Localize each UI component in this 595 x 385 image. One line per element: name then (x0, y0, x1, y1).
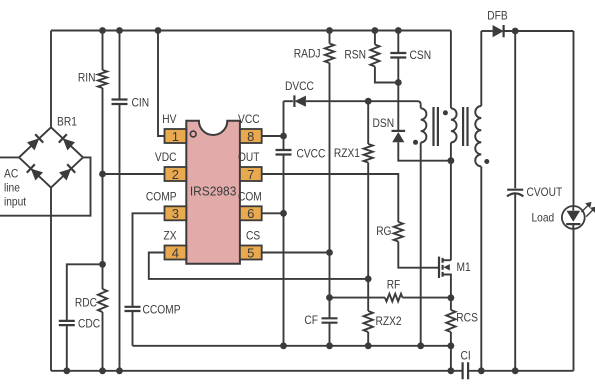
wire output node down right edge (573, 31, 575, 206)
wire RCS to bus (450, 332, 452, 346)
wire DVCC anode side (284, 100, 293, 102)
wire aux winding top stub (420, 104, 422, 108)
wire AC input upper (0, 156, 19, 158)
BR1 diode bottom-right (59, 164, 75, 180)
capacitor CIN (112, 100, 128, 105)
pin 3 box (165, 206, 187, 220)
svg-text:VDC: VDC (155, 151, 177, 164)
secondary winding phase dot (484, 159, 489, 164)
wire DFB node to secondary top (480, 31, 482, 106)
svg-text:DVCC: DVCC (285, 80, 314, 93)
resistor RF (385, 294, 403, 302)
pin 2 box (165, 167, 187, 181)
junction VCC-CVCC (280, 133, 287, 140)
svg-text:CCOMP: CCOMP (143, 303, 181, 316)
wire RADJ to CS node (329, 63, 331, 298)
svg-text:M1: M1 (457, 261, 471, 274)
junction rail-RADJ (326, 27, 333, 34)
svg-text:RG: RG (376, 225, 391, 238)
junction rail-bus-drop (448, 367, 455, 374)
junction bus-CF (326, 342, 333, 349)
wire COM pin 6 (262, 212, 284, 214)
pin 6 box (240, 206, 262, 220)
svg-text:RZX2: RZX2 (376, 315, 402, 328)
wire CVOUT to ground rail (514, 193, 516, 370)
svg-text:CIN: CIN (132, 96, 150, 109)
wire snubber node to DSN (397, 83, 399, 131)
svg-text:4: 4 (172, 245, 179, 260)
pin 4 box (165, 246, 187, 260)
wire output node to CVOUT (514, 31, 516, 188)
junction CS-RADJ (326, 249, 333, 256)
svg-text:OUT: OUT (238, 151, 260, 164)
wire rail to RADJ (329, 31, 331, 44)
wire RZX2 to bus (367, 332, 369, 346)
svg-text:CDC: CDC (78, 317, 100, 330)
wire CCOMP to bus (132, 311, 134, 346)
svg-text:RADJ: RADJ (294, 48, 321, 61)
wire ZX node to RZX2 (367, 279, 369, 311)
svg-text:HV: HV (162, 113, 176, 126)
resistor RSN (370, 45, 379, 67)
wire CIN to ground rail (119, 104, 121, 371)
wire AC input lower to BR1 right corner (0, 157, 91, 215)
wire ZX pin 4 to divider (149, 253, 368, 279)
svg-text:input: input (4, 196, 27, 209)
junction CS-RF-CF (326, 294, 333, 301)
wire DVCC node to RZX1 (367, 101, 369, 144)
wire M1 source to RCS (450, 298, 452, 310)
BR1 diode bottom-left (27, 164, 43, 180)
svg-text:CVCC: CVCC (297, 148, 326, 161)
svg-text:RIN: RIN (78, 72, 96, 85)
svg-text:1: 1 (172, 129, 179, 144)
wire ground bus (133, 345, 451, 347)
wire BR1 top to rail (50, 31, 52, 128)
junction rail-secondary (478, 367, 485, 374)
junction rail-CVOUT (512, 367, 519, 374)
wire RF to M1 source node (403, 297, 451, 299)
transformer T1 primary winding (451, 108, 457, 142)
wire RZX1 to ZX node (367, 163, 369, 279)
wire CSN to snubber node (397, 58, 399, 83)
wire bus drop to rail (450, 346, 452, 371)
svg-text:2: 2 (172, 167, 179, 182)
junction bus-aux (417, 342, 424, 349)
pin 7 box (240, 167, 262, 181)
aux winding phase dot (413, 140, 418, 145)
pin 1 indicator dot (190, 131, 196, 137)
transformer T1 auxiliary winding (421, 108, 427, 142)
capacitor CSN (390, 53, 406, 58)
svg-text:Load: Load (532, 212, 555, 225)
svg-text:COM: COM (238, 190, 262, 203)
wire VDC pin 2 (103, 173, 165, 175)
wire rail to HV pin 1 (158, 31, 165, 137)
svg-text:RZX1: RZX1 (334, 147, 360, 160)
BR1 diode top-right (59, 134, 75, 150)
svg-text:RCS: RCS (456, 312, 478, 325)
svg-text:BR1: BR1 (57, 116, 77, 129)
diode DSN (392, 131, 406, 142)
wire primary bottom to drain (450, 143, 452, 261)
junction VDC tap (99, 171, 106, 178)
wire RSN to snubber node (375, 67, 398, 83)
svg-text:CS: CS (246, 230, 260, 243)
svg-text:AC: AC (4, 168, 18, 181)
junction rail-HV (155, 27, 162, 34)
pin 8 box (240, 129, 262, 143)
diode DFB (493, 25, 504, 37)
BR1 diode top-left (27, 134, 43, 150)
resistor RZX2 (364, 311, 373, 332)
svg-text:DSN: DSN (373, 117, 395, 130)
wire top rail (51, 30, 451, 32)
wire CDC to ground rail (66, 325, 68, 371)
wire RDC to ground rail (102, 312, 104, 371)
svg-text:DFB: DFB (487, 9, 508, 22)
wire DFB to output node (504, 30, 574, 32)
junction rail-RSN (372, 27, 379, 34)
wire CS node to CF (329, 298, 331, 319)
wire OUT pin 7 to RG (262, 174, 399, 222)
wire aux winding to bus (420, 143, 422, 346)
junction CDC tap (99, 261, 106, 268)
svg-text:CVOUT: CVOUT (527, 186, 563, 199)
wire BR1 bottom to ground rail (50, 188, 52, 371)
svg-text:IRS2983: IRS2983 (190, 184, 237, 199)
wire COMP pin 3 to CCOMP (133, 213, 165, 306)
resistor RZX1 (364, 144, 373, 163)
junction bus-RCS (448, 342, 455, 349)
resistor RCS (446, 310, 455, 332)
junction M1 source-RF-RCS (448, 294, 455, 301)
capacitor CVOUT (507, 190, 523, 197)
junction rail-CIN-bottom (116, 367, 123, 374)
junction rail-RIN (99, 27, 106, 34)
pin 1 box (165, 129, 187, 143)
junction bus-RZX2 (365, 342, 372, 349)
svg-text:RF: RF (387, 279, 401, 292)
wire rail to RIN (102, 31, 104, 71)
transistor M1 (439, 257, 451, 298)
wire DVCC to aux winding (306, 101, 421, 104)
wire secondary top to DFB (481, 30, 492, 32)
capacitor CVCC (276, 150, 292, 155)
wire CS node to RF (330, 297, 386, 299)
capacitor CDC (59, 321, 75, 325)
svg-text:CF: CF (304, 314, 318, 327)
resistor RDC (98, 289, 107, 312)
bridge rectifier BR1 (19, 127, 83, 187)
junction bus-COM (280, 342, 287, 349)
wire CF to bus (329, 323, 331, 346)
wire rail to RSN (374, 31, 376, 45)
LED load (562, 206, 585, 229)
wire rail to CIN (119, 31, 121, 100)
diode DVCC (294, 95, 306, 107)
junction ZX divider (365, 276, 372, 283)
svg-text:3: 3 (172, 206, 179, 221)
svg-text:CI: CI (461, 349, 471, 362)
junction rail-CSN (395, 27, 402, 34)
transformer core lines right (463, 107, 467, 146)
svg-text:CSN: CSN (410, 49, 432, 62)
junction DFB output node (512, 28, 519, 35)
wire rail to primary winding (450, 31, 452, 109)
svg-text:ZX: ZX (164, 230, 177, 243)
junction primary bottom-DSN (448, 157, 455, 164)
svg-text:COMP: COMP (146, 190, 177, 203)
svg-text:8: 8 (247, 129, 254, 144)
transformer T1 secondary winding (475, 106, 481, 167)
LED emission arrows (581, 203, 595, 217)
wire CVCC column (DVCC to COM) (283, 101, 285, 150)
wire RIN to RDC (VDC tap, CDC tap) (102, 88, 104, 289)
pin 5 box (240, 246, 262, 260)
primary winding phase dot (443, 110, 448, 115)
svg-text:5: 5 (247, 245, 254, 260)
wire CVCC to bus (283, 155, 285, 346)
wire secondary bottom to ground rail (480, 167, 482, 371)
junction COM-CVCC (280, 210, 287, 217)
svg-text:6: 6 (247, 206, 254, 221)
wire ground rail right of CI (468, 370, 573, 372)
capacitor CCOMP (125, 307, 141, 311)
svg-text:line: line (4, 182, 20, 195)
junction rail-CDC (63, 367, 70, 374)
wire DSN to primary bottom (398, 142, 451, 161)
capacitor CI (463, 362, 469, 379)
wire CDC branch (67, 264, 103, 321)
wire LED to ground rail (573, 229, 575, 371)
transformer core lines left (434, 107, 438, 146)
junction snubber RSN-CSN (395, 79, 402, 86)
op-amp U1 IRS2983 body (186, 121, 240, 264)
svg-text:VCC: VCC (238, 113, 260, 126)
wire ground rail left of CI (51, 370, 463, 372)
wire VCC pin 8 (262, 135, 284, 137)
svg-text:7: 7 (247, 167, 254, 182)
junction rail-CIN (116, 27, 123, 34)
svg-text:RSN: RSN (344, 49, 366, 62)
wire CS pin 5 (262, 252, 330, 254)
wire rail to CSN (397, 31, 399, 53)
junction DVCC-RZX1 (365, 98, 372, 105)
resistor RIN (98, 70, 107, 88)
wire RG to gate (398, 242, 439, 268)
junction rail-RDC (99, 367, 106, 374)
resistor RG (394, 222, 403, 242)
capacitor CF (322, 318, 338, 322)
resistor RADJ (325, 44, 334, 64)
svg-text:RDC: RDC (75, 296, 97, 309)
